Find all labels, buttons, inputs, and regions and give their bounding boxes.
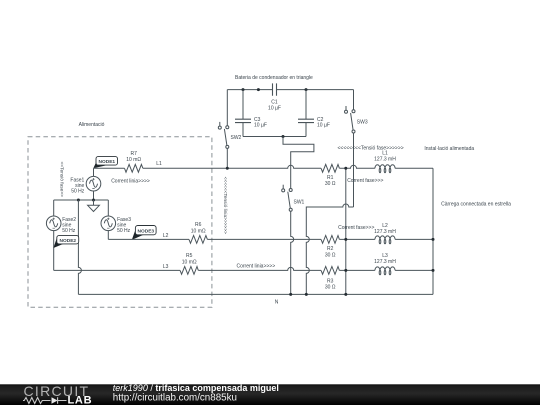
wire SW3 route left and down to N — [306, 204, 353, 294]
wire Fase3 top — [107, 200, 109, 216]
svg-text:127.3 mH: 127.3 mH — [374, 259, 396, 265]
node junction top-C2 — [305, 88, 308, 91]
node junction SW1-N — [289, 293, 292, 296]
svg-text:30 Ω: 30 Ω — [325, 181, 336, 187]
node junction SW3-N — [305, 293, 308, 296]
voltage source V3 Fase3 — [101, 216, 131, 234]
inductor L1 — [374, 151, 396, 173]
wire SW1 down to N with hop over L2 — [291, 211, 294, 294]
svg-text:10 mΩ: 10 mΩ — [126, 157, 141, 163]
footer logo resistor-diode glyph — [23, 397, 67, 404]
svg-text:<<Tensió fase>>: <<Tensió fase>> — [58, 161, 64, 197]
svg-text:LAB: LAB — [68, 395, 93, 405]
svg-text:30 Ω: 30 Ω — [325, 285, 336, 291]
svg-text:50 Hz: 50 Hz — [117, 228, 131, 234]
capacitor C2 — [298, 117, 330, 129]
switch SW1 — [282, 185, 305, 212]
svg-text:http://circuitlab.com/cn885ku: http://circuitlab.com/cn885ku — [113, 392, 237, 403]
svg-text:127.3 mH: 127.3 mH — [374, 157, 396, 163]
svg-text:SW3: SW3 — [357, 119, 368, 125]
wire Fase1 top to L1 — [93, 168, 95, 176]
svg-text:Instal·lació alimentada: Instal·lació alimentada — [424, 146, 474, 152]
svg-text:R1: R1 — [327, 175, 334, 181]
node junction bus-L2 — [344, 238, 347, 241]
resistor R6 — [189, 222, 207, 243]
svg-text:terk1990 / trifasica compensad: terk1990 / trifasica compensada miguel — [113, 383, 279, 393]
resistor R7 — [125, 151, 143, 172]
svg-text:<<<<<<Tensió linia>>>>>>: <<<<<<Tensió linia>>>>>> — [222, 177, 228, 235]
svg-text:L3: L3 — [382, 253, 388, 259]
svg-text:<<<<<<<<Tensió fase>>>>>>: <<<<<<<<Tensió fase>>>>>> — [338, 146, 404, 152]
resistor R5 — [180, 253, 198, 274]
wire mid bus vertical — [345, 168, 347, 294]
svg-text:L1: L1 — [156, 161, 162, 167]
svg-text:L2: L2 — [163, 233, 169, 239]
svg-text:Alimentació: Alimentació — [79, 122, 105, 128]
wire L2 line — [108, 238, 433, 240]
wire Fase3 bottom to L2 — [107, 230, 109, 239]
wire SW3 down crossing L1 — [353, 133, 355, 207]
svg-text:Bateria de condensador en tria: Bateria de condensador en triangle — [235, 75, 313, 81]
svg-text:R3: R3 — [327, 278, 334, 284]
svg-text:50 Hz: 50 Hz — [71, 188, 85, 194]
resistor R3 — [321, 267, 339, 291]
voltage source V2 Fase2 — [46, 216, 76, 234]
node tag NODE2 — [53, 235, 78, 248]
node junction top-C3 — [242, 88, 245, 91]
svg-text:30 Ω: 30 Ω — [325, 252, 336, 258]
node junction bottom mid — [282, 135, 285, 138]
svg-text:10 mΩ: 10 mΩ — [191, 228, 206, 234]
node junction top mid — [257, 88, 260, 91]
node junction common-neutral — [77, 199, 80, 202]
svg-text:NODE1: NODE1 — [99, 159, 116, 165]
svg-text:SW2: SW2 — [231, 135, 242, 141]
enclosure Alimentacio box — [28, 122, 212, 307]
node junction star-L3 — [432, 269, 435, 272]
svg-text:10 µF: 10 µF — [254, 123, 267, 129]
voltage source V1 Fase1 — [70, 176, 100, 194]
inductor L2 — [374, 223, 396, 244]
wire Fase2 bottom to L3 — [53, 230, 55, 270]
wire capacitor bank top — [227, 89, 353, 91]
svg-text:NODE3: NODE3 — [138, 229, 155, 235]
node junction bus-N — [344, 293, 347, 296]
node tag NODE1 — [93, 156, 117, 168]
capacitor C1 — [268, 83, 281, 111]
wire neutral vertical with hop over L3 — [78, 200, 81, 294]
wire SW2 to L1 — [226, 148, 228, 168]
wire cap top-left down to SW2 — [226, 90, 228, 126]
svg-text:10 µF: 10 µF — [317, 123, 330, 129]
svg-text:R2: R2 — [327, 246, 334, 252]
wire L3 line — [54, 267, 433, 270]
svg-text:C1: C1 — [271, 100, 278, 106]
node junction bus-L3 — [344, 269, 347, 272]
svg-text:L3: L3 — [163, 264, 169, 270]
node junction star-L2 — [432, 238, 435, 241]
wire cap top-right down to SW3 — [353, 90, 355, 110]
node junction common-Fase1 — [92, 199, 95, 202]
svg-text:Corrent linia>>>>: Corrent linia>>>> — [237, 264, 276, 270]
svg-text:Corrent fase>>>: Corrent fase>>> — [347, 178, 383, 184]
wire Fase1 bottom to common node — [93, 191, 95, 200]
node junction bus-L1 — [344, 167, 347, 170]
wire C2 branch — [305, 90, 307, 137]
svg-text:L2: L2 — [382, 223, 388, 229]
inductor L3 — [374, 253, 396, 275]
svg-text:10 µF: 10 µF — [268, 106, 281, 112]
svg-text:R5: R5 — [186, 253, 193, 259]
svg-text:NODE2: NODE2 — [60, 238, 77, 244]
svg-text:127.3 mH: 127.3 mH — [374, 229, 396, 235]
wire L1 line — [94, 165, 434, 168]
wire N line — [78, 293, 433, 295]
node tag NODE3 — [132, 226, 156, 240]
svg-text:R7: R7 — [130, 151, 137, 157]
capacitor C3 — [235, 117, 267, 129]
svg-text:Corrent linia>>>>: Corrent linia>>>> — [111, 178, 150, 184]
wire C3 branch — [242, 90, 244, 137]
svg-text:10 mΩ: 10 mΩ — [182, 259, 197, 265]
switch SW2 — [218, 122, 241, 148]
svg-text:SW1: SW1 — [294, 199, 305, 205]
footer bar — [0, 384, 540, 405]
wire Fase2 top — [53, 200, 55, 216]
svg-text:Corrent fase>>>: Corrent fase>>> — [338, 225, 374, 231]
node junction SW2-L1 — [226, 167, 229, 170]
svg-text:R6: R6 — [195, 222, 202, 228]
switch SW3 — [345, 106, 368, 133]
svg-text:50 Hz: 50 Hz — [62, 228, 76, 234]
wire cap bottom Z-route to SW1 — [283, 137, 314, 189]
ground — [88, 200, 100, 212]
wire star bus right — [432, 168, 434, 294]
wire common node horizontal — [54, 199, 109, 201]
svg-text:N: N — [275, 300, 279, 306]
resistor R2 — [321, 236, 339, 259]
resistor R1 — [321, 164, 339, 187]
wire capacitor bank bottom — [243, 136, 306, 138]
svg-text:Càrrega connectada en estrella: Càrrega connectada en estrella — [441, 201, 511, 207]
